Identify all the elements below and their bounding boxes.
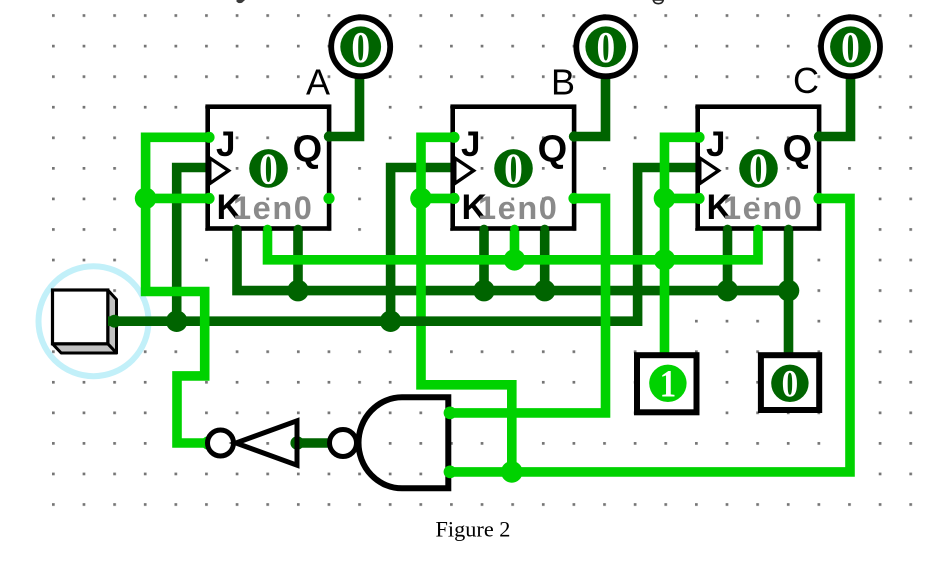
svg-text:0: 0 <box>782 362 799 405</box>
halo around button <box>39 266 149 376</box>
button output stub dot <box>108 315 121 328</box>
svg-text:0: 0 <box>841 23 860 71</box>
wire Q of A to LED A <box>329 75 360 137</box>
svg-text:J: J <box>216 125 235 164</box>
svg-text:B: B <box>551 62 575 103</box>
svg-text:0: 0 <box>596 23 615 71</box>
wire Q of B to LED B <box>575 75 606 137</box>
NOT input stub dot <box>290 436 304 450</box>
text descender fragment right <box>653 0 663 4</box>
junction preset net at B pin1 <box>473 280 495 302</box>
svg-text:1: 1 <box>660 362 677 405</box>
junction preset net at C pin1 <box>717 280 739 302</box>
wire clock to FF B <box>391 168 455 322</box>
wire Qbar of B to NAND top input <box>453 198 606 413</box>
constant pin 0 <box>761 355 819 410</box>
junction preset net at C pin3 <box>778 280 800 302</box>
svg-text:C: C <box>793 60 819 101</box>
junction constant-1 net at C K <box>654 188 676 210</box>
svg-text:A: A <box>306 62 330 103</box>
LED B (output probe) <box>576 17 635 76</box>
svg-text:Figure 2: Figure 2 <box>436 517 511 542</box>
wire enable net (bottom pin2 of A,B,C) <box>268 228 759 260</box>
svg-text:Q: Q <box>293 129 323 171</box>
NAND gate (west facing) <box>330 397 457 488</box>
junction enable net at B pin2 <box>504 249 526 271</box>
JK flip-flop B <box>448 107 579 234</box>
svg-text:J: J <box>706 125 725 164</box>
svg-text:1en0: 1en0 <box>478 190 558 226</box>
svg-text:1en0: 1en0 <box>723 190 803 226</box>
junction B feedback at K pin <box>410 188 432 210</box>
wire button to clocks (main clock net) <box>108 168 700 322</box>
LED C (output probe) <box>821 17 880 76</box>
svg-text:Q: Q <box>538 129 568 171</box>
wire B feedback (J,K of B from NAND-bottom net) <box>421 137 512 474</box>
junction preset net at B pin3 <box>534 280 556 302</box>
svg-text:0: 0 <box>749 145 768 193</box>
junction A feedback at K pin <box>135 188 157 210</box>
junction clock net at B branch <box>380 310 402 332</box>
wire clock to FF A <box>177 168 210 322</box>
NOT output stub dot <box>202 436 216 450</box>
svg-text:0: 0 <box>504 145 523 193</box>
wire preset-clear net (constant 0 to bottom pins 1,3 of A,B,C) <box>237 228 789 356</box>
svg-text:0: 0 <box>259 145 278 193</box>
wire NOT output to J,K of A (A feedback) <box>146 137 210 443</box>
LED A (output probe) <box>331 17 390 76</box>
junction preset net at A pin3 <box>287 280 309 302</box>
wire constant 1 to J,K of C <box>665 137 700 356</box>
svg-text:1en0: 1en0 <box>233 190 313 226</box>
wire Q of C to LED C <box>819 75 851 137</box>
wire Qbar of C to NAND bottom input <box>453 198 850 472</box>
svg-text:Q: Q <box>783 129 813 171</box>
JK flip-flop C <box>693 107 824 234</box>
wire NAND output to NOT input <box>297 438 332 448</box>
push button <box>53 290 117 353</box>
svg-text:0: 0 <box>351 23 370 71</box>
svg-text:J: J <box>461 125 480 164</box>
JK flip-flop A <box>203 107 334 234</box>
NOT gate (west facing) <box>208 421 298 465</box>
junction constant-1 net at enable line <box>654 249 676 271</box>
constant pin 1 <box>637 355 697 412</box>
junction NAND-bottom net with B feedback <box>501 461 523 483</box>
junction clock net at A branch <box>166 310 188 332</box>
text descender fragment left <box>237 0 246 3</box>
